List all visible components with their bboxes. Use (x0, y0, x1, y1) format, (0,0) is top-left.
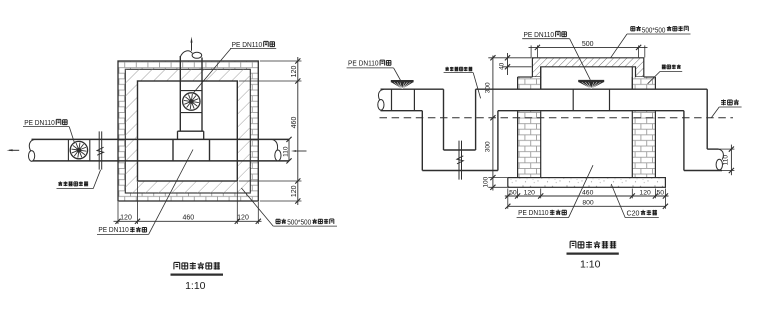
plan: label PE DN110 tee (97, 150, 193, 235)
plan: label composite cover 500x500 (241, 188, 337, 226)
svg-text:PE DN110: PE DN110 (348, 59, 379, 68)
svg-text:460: 460 (182, 215, 194, 222)
svg-text:50: 50 (509, 189, 517, 196)
plan: well outer brick wall ring (118, 61, 258, 201)
svg-text:500*500: 500*500 (642, 27, 666, 34)
plan: label PE DN110 valve (left) (23, 118, 75, 143)
plan: main pipe PE DN110 horizontal (31, 139, 289, 161)
plan: flow arrow left (7, 149, 20, 151)
section: dim 500 above cover (529, 41, 648, 58)
section: label PE DN110 valve (left) (347, 59, 401, 81)
section: C20 concrete base slab (508, 178, 666, 188)
section: label lengthened sleeve (444, 67, 481, 99)
plan: main pipe right break symbol (272, 139, 281, 160)
svg-text:120: 120 (291, 66, 298, 78)
plan: vertical branch pipe (180, 56, 202, 113)
svg-text:1:10: 1:10 (580, 259, 601, 271)
svg-text:120: 120 (120, 215, 132, 222)
svg-text:C20: C20 (627, 208, 640, 217)
section: pipe U-dip under ground (422, 89, 498, 170)
svg-text:PE DN110: PE DN110 (24, 118, 55, 127)
plan: valve V2 on main pipe (68, 139, 89, 161)
section: label composite cover 500x500 (611, 26, 691, 58)
section: title valve well section view (567, 241, 619, 271)
plan: valve V1 on branch pipe (180, 91, 202, 113)
svg-text:PE DN110: PE DN110 (524, 30, 555, 39)
svg-text:460: 460 (291, 117, 298, 129)
svg-text:110: 110 (282, 146, 289, 157)
section: bottom dim line 50/120/460/120/50 (505, 189, 669, 198)
section: pipe upper run top line (381, 88, 708, 90)
plan: bottom dimension extension lines (118, 182, 258, 224)
svg-text:PE DN110: PE DN110 (98, 225, 128, 234)
plan: pipe diameter dim 110 (282, 137, 306, 164)
plan: sleeve symbol on main pipe (97, 131, 104, 169)
section: label ground line (711, 99, 741, 117)
svg-text:100: 100 (482, 176, 489, 187)
section: total dim 800 (505, 200, 668, 209)
svg-text:1:10: 1:10 (185, 280, 206, 292)
svg-text:PE DN110: PE DN110 (232, 40, 263, 49)
plan: label lengthened sleeve (57, 170, 101, 189)
section: composite cover slab (532, 58, 643, 77)
plan: main pipe left break symbol (29, 139, 35, 161)
svg-text:40: 40 (499, 62, 506, 70)
svg-text:460: 460 (582, 189, 594, 196)
section: pipe left break symbol (378, 89, 384, 110)
plan: tee PE DN110 (neck) (178, 113, 204, 140)
svg-text:300: 300 (484, 141, 491, 152)
svg-text:500: 500 (582, 41, 594, 48)
plan: vertical pipe break symbol (180, 51, 201, 58)
plan: tee PE DN110 (body) (173, 139, 210, 161)
svg-text:120: 120 (237, 215, 249, 222)
section: outlet dim 110 (719, 145, 735, 176)
svg-text:120: 120 (639, 189, 651, 196)
plan: bottom dimension line 120/460/120 (114, 215, 262, 224)
section: valve V4 in well (on tee) (573, 81, 609, 111)
section: sleeve symbol at U-dip (457, 141, 464, 180)
svg-text:110: 110 (722, 155, 729, 166)
svg-text:PE DN110: PE DN110 (518, 208, 548, 217)
svg-text:50: 50 (657, 189, 665, 196)
section: label PE DN110 valve (top) (522, 30, 590, 80)
svg-text:120: 120 (524, 189, 536, 196)
section: label C20 concrete base (611, 184, 659, 218)
section: right brick pier wall (632, 77, 655, 178)
section: pipe right drop and outlet (684, 89, 722, 170)
plan: flow arrow up (191, 37, 193, 51)
svg-text:800: 800 (582, 200, 594, 207)
plan: right dimension extension lines (239, 61, 302, 201)
section: left dim chain 300/300/100 (482, 55, 531, 190)
section: pipe upper run bottom line (381, 110, 684, 112)
section: ground line (dashed) (380, 117, 734, 119)
plan: right dimension line 120/460/120 (291, 57, 301, 205)
section: pipe right break symbol (716, 149, 723, 170)
section: well inner wall lines (541, 67, 633, 89)
svg-text:500*500: 500*500 (287, 217, 311, 226)
section: bottom dim extension lines (508, 189, 666, 209)
plan: label PE DN110 valve (top) (194, 40, 277, 93)
plan: well wall hatch ring (125, 69, 250, 193)
svg-text:120: 120 (291, 185, 298, 197)
section: label brick well wall (648, 65, 683, 84)
section: valve V3 left (on pipe) (391, 81, 415, 111)
plan: title valve well plan view (171, 262, 224, 292)
section: left brick pier wall (518, 77, 541, 178)
section: dim 40 slab thickness (499, 53, 532, 75)
section: label PE DN110 tee (517, 165, 593, 217)
svg-text:300: 300 (484, 82, 491, 93)
